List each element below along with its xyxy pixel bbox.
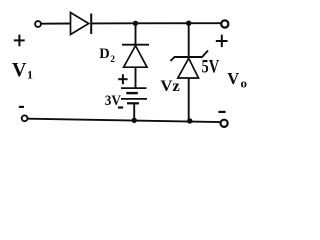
svg-text:1: 1 — [27, 68, 33, 82]
svg-text:V: V — [12, 59, 27, 81]
svg-text:2: 2 — [110, 55, 115, 65]
svg-text:V: V — [227, 69, 239, 88]
svg-text:Vz: Vz — [160, 78, 179, 95]
svg-text:3V: 3V — [105, 93, 122, 109]
svg-text:o: o — [241, 75, 248, 90]
svg-text:5V: 5V — [202, 57, 220, 78]
svg-text:D: D — [99, 46, 109, 62]
